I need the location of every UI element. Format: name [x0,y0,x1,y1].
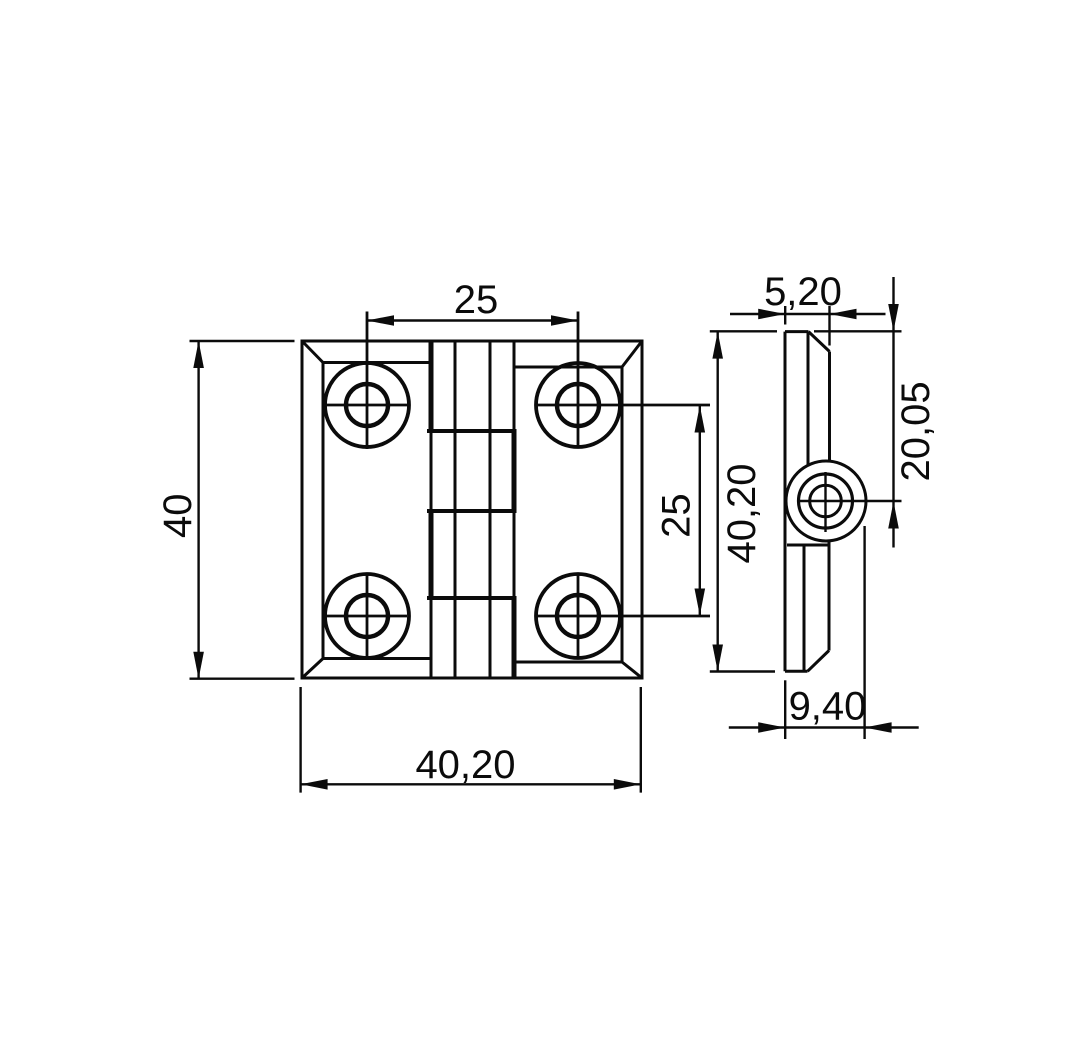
side view leaf top edge [785,330,809,333]
left leaf inner rectangle [323,363,431,659]
dimension 5,20: left arrow [758,309,785,320]
dimension 40,20 side: extension lines [710,331,777,671]
front view outer square [302,341,642,678]
screw hole bottom-left [325,574,409,658]
dimension 40 left: extension lines [190,341,295,679]
side view knuckle circle [786,461,866,541]
dimension 5,20: line [730,313,886,315]
dimension 40 left: line [197,341,199,679]
dimension 40,20 bottom: extension lines [301,687,641,793]
side view below-knuckle edge [787,544,828,547]
right leaf inner rectangle [514,367,622,662]
chamfer bottom-left corner [302,659,323,679]
screw hole bottom-right [536,574,620,658]
dimension 40,20 side: top arrow [712,332,723,359]
svg-text:40,20: 40,20 [415,743,515,787]
side view left edge [784,332,787,672]
dimension 40 left: bottom arrow [193,652,204,679]
svg-text:9,40: 9,40 [789,684,867,728]
chamfer bottom-right corner [622,662,642,678]
dimension 9,40: line [729,726,919,728]
dimension 25 top: left arrow [367,315,394,326]
crosshair bottom-right hole [536,573,710,659]
dimension 20,05: down arrow [888,304,899,331]
chamfer top-left corner [302,341,323,363]
crosshair top-right hole [536,312,710,448]
svg-text:5,20: 5,20 [764,270,842,314]
svg-text:40,20: 40,20 [720,463,764,563]
svg-text:25: 25 [454,278,499,322]
side view pin outer circle [799,474,853,528]
dimension 20,05: up arrow [888,502,899,529]
dimension 5,20: extension lines [785,306,829,346]
side view pin inner circle [810,485,842,517]
side view lower middle line [803,545,806,671]
screw hole top-right [536,363,620,447]
dimension 25 right: line [699,405,701,616]
screw hole top-left [325,363,409,447]
side view pin crosshair [797,472,902,532]
svg-text:40: 40 [156,493,200,538]
dimension 40,20 bottom: line [301,783,641,785]
dimension 9,40: extension lines [785,526,864,739]
crosshair bottom-left hole [325,573,407,659]
dimension 25 top: right arrow [551,315,578,326]
barrel thick knuckle edges [431,341,514,678]
dimension 40,20 side: line [717,332,719,672]
crosshair top-left hole [325,312,409,450]
dimension 40,20 bottom: left arrow [301,779,328,790]
side view bottom chamfer [808,651,830,672]
side view lower right edge [828,541,831,651]
dimension 5,20: right arrow [830,309,857,320]
dimension 9,40: right arrow [865,722,892,733]
dimension 25 top: line [367,319,578,321]
side view upper middle line [807,332,810,465]
dimension 40,20 side: bottom arrow [712,645,723,672]
chamfer top-right corner [622,341,642,367]
dimension 25 right: top arrow [695,406,706,433]
side view upper right edge [828,352,831,462]
dimension 25 right: bottom arrow [695,589,706,616]
dimension 9,40: left arrow [758,722,785,733]
hinge barrel vertical lines [431,341,514,678]
dimension 40,20 bottom: right arrow [614,779,641,790]
svg-text:20,05: 20,05 [894,381,938,481]
side view bottom edge [785,670,808,673]
dimension 20,05: line [892,277,894,548]
knuckle division lines [427,431,517,598]
svg-text:25: 25 [655,493,699,538]
side view top chamfer [809,332,830,352]
dimension 20,05: extension line top [814,330,902,332]
dimension 40 left: top arrow [193,341,204,368]
